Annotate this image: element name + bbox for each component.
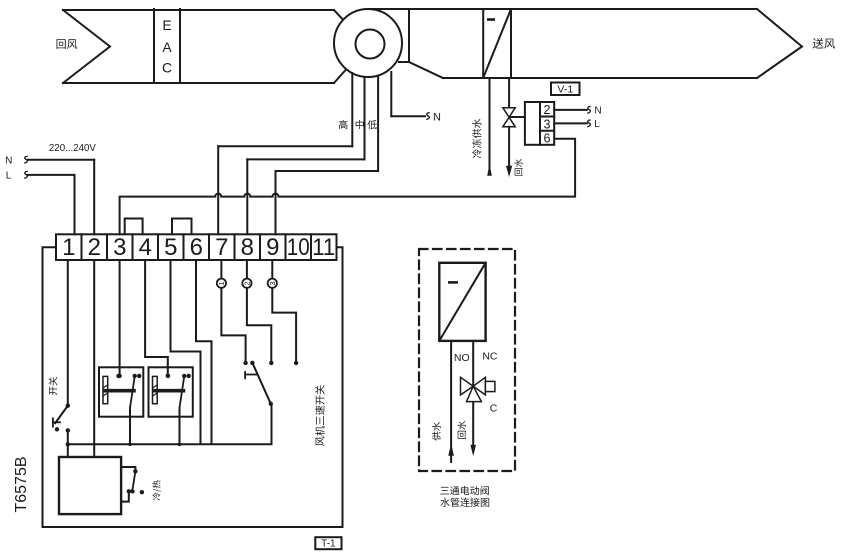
svg-text:N: N <box>594 106 601 117</box>
svg-text:A: A <box>162 39 172 55</box>
svg-text:1: 1 <box>62 234 75 261</box>
svg-text:3: 3 <box>268 281 277 285</box>
svg-text:2: 2 <box>243 281 252 285</box>
svg-text:E: E <box>162 17 171 33</box>
svg-text:11: 11 <box>312 234 335 261</box>
svg-text:N: N <box>5 156 12 167</box>
svg-text:C: C <box>162 60 172 76</box>
svg-text:4: 4 <box>139 234 152 261</box>
svg-text:10: 10 <box>287 234 310 261</box>
svg-text:C: C <box>490 402 498 414</box>
svg-text:N: N <box>433 112 441 124</box>
svg-text:T6575B: T6575B <box>13 456 30 512</box>
svg-text:3: 3 <box>113 234 126 261</box>
svg-text:2: 2 <box>544 103 551 117</box>
svg-text:6: 6 <box>190 234 203 261</box>
svg-text:NC: NC <box>482 350 498 362</box>
svg-text:3: 3 <box>544 118 551 132</box>
svg-text:7: 7 <box>215 234 228 261</box>
svg-text:220...240V: 220...240V <box>49 142 96 154</box>
svg-text:L: L <box>594 119 600 130</box>
svg-text:8: 8 <box>241 234 254 261</box>
svg-text:9: 9 <box>266 234 279 261</box>
svg-text:5: 5 <box>164 234 177 261</box>
svg-text:T-1: T-1 <box>321 539 336 550</box>
svg-text:6: 6 <box>544 132 551 146</box>
svg-text:1: 1 <box>217 281 226 285</box>
svg-text:2: 2 <box>88 234 101 261</box>
svg-text:NO: NO <box>454 352 470 364</box>
svg-text:V-1: V-1 <box>557 83 573 95</box>
svg-text:L: L <box>6 170 12 181</box>
